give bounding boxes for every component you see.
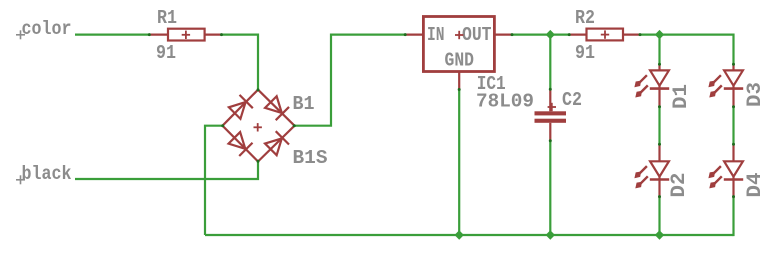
wire ground rail <box>205 234 734 236</box>
svg-text:GND: GND <box>445 50 475 72</box>
svg-text:D3: D3 <box>744 82 767 107</box>
wire R2 to D1/D3 node and top corner <box>640 35 734 65</box>
junction GND rail at IC1 <box>455 230 464 239</box>
pin dot R1 pin 2 <box>220 33 223 36</box>
pin dot IC1 IN <box>404 33 407 36</box>
svg-text:color: color <box>22 18 72 40</box>
pin dot D3 anode <box>732 63 735 66</box>
LED D4 top pin stub <box>732 144 734 161</box>
svg-text:B1: B1 <box>293 93 315 115</box>
wire IC1 OUT to R2 <box>512 33 569 35</box>
svg-text:91: 91 <box>156 42 176 64</box>
svg-text:R2: R2 <box>575 7 595 29</box>
bridge B1 diode top-right <box>264 95 289 120</box>
wire bridge left vertex down to ground rail <box>205 126 223 235</box>
pin dot bridge left vertex <box>221 124 224 127</box>
LED D2 top pin stub <box>658 144 660 161</box>
svg-text:D4: D4 <box>744 173 767 198</box>
wire C2 to ground rail <box>549 141 551 236</box>
LED D3 top pin stub <box>732 64 734 70</box>
pin dot C2 top <box>549 88 552 91</box>
LED D3 <box>708 70 743 107</box>
IC1 pin OUT <box>494 33 512 35</box>
pin dot C2 bottom <box>549 139 552 142</box>
pin dot IC1 OUT <box>511 33 514 36</box>
bridge B1 diode top-left <box>228 95 253 120</box>
wire IC1 GND to ground rail <box>458 90 460 236</box>
wire D1 to D2 <box>658 107 660 145</box>
bridge B1 diode bottom-right <box>264 131 289 156</box>
junction OUT node <box>546 30 555 39</box>
capacitor C2 plus mark <box>548 103 556 111</box>
capacitor C2 <box>535 89 567 141</box>
LED D4 <box>708 161 743 198</box>
LED D1 <box>634 70 669 107</box>
junction R2/D1 node <box>655 30 664 39</box>
pin dot D1 cathode <box>658 105 661 108</box>
pin dot D1 anode <box>658 63 661 66</box>
svg-text:C2: C2 <box>562 89 582 111</box>
pin dot D3 cathode <box>732 105 735 108</box>
pin dot bridge top vertex <box>257 88 260 91</box>
pin connection dots <box>148 33 735 198</box>
svg-text:B1S: B1S <box>293 147 328 169</box>
bridge rectifier B1 outline <box>223 90 295 162</box>
LED D2 <box>634 161 669 198</box>
junction GND rail at C2 <box>546 230 555 239</box>
wire black to bridge bottom vertex <box>75 162 258 180</box>
pin dot D4 anode <box>732 143 735 146</box>
IC1 pin IN <box>405 33 424 35</box>
pin dot IC1 GND <box>458 88 461 91</box>
pin dot R1 pin 1 <box>148 33 151 36</box>
svg-text:78L09: 78L09 <box>476 91 534 113</box>
svg-text:D2: D2 <box>668 173 691 198</box>
node COLOR origin cross <box>16 30 25 39</box>
svg-text:IN: IN <box>427 24 445 46</box>
resistor R1 <box>149 29 223 41</box>
svg-text:91: 91 <box>575 42 595 64</box>
pin dot bridge right vertex <box>293 124 296 127</box>
wire D4 to ground rail <box>732 197 734 237</box>
wire D3 to D4 <box>732 107 734 145</box>
node BLACK origin cross <box>16 175 25 184</box>
IC1 pin GND <box>458 72 460 91</box>
junction GND rail at D2 <box>655 230 664 239</box>
wire bridge right vertex to IC1 IN <box>295 35 406 126</box>
svg-text:D1: D1 <box>670 84 693 109</box>
bridge B1 diode bottom-left <box>228 131 253 156</box>
bridge B1 origin cross <box>254 123 262 131</box>
svg-text:R1: R1 <box>157 7 177 29</box>
svg-text:OUT: OUT <box>462 24 492 46</box>
LED D1 top pin stub <box>658 64 660 70</box>
voltage regulator IC1 box <box>423 17 494 72</box>
pin dot R2 pin 1 <box>568 33 571 36</box>
wire color to R1 <box>75 33 149 35</box>
wire node down to D1 <box>658 35 660 65</box>
svg-text:black: black <box>22 163 72 185</box>
wire D2 to ground rail <box>658 197 660 235</box>
pin dot D2 anode <box>658 143 661 146</box>
wire R1 to bridge top vertex <box>222 35 258 90</box>
resistor R2 <box>569 29 641 41</box>
IC1 origin cross <box>455 31 463 39</box>
pin dot bridge bottom vertex <box>257 160 260 163</box>
wire OUT node down to C2 <box>549 35 551 90</box>
pin dot D2 cathode <box>658 195 661 198</box>
pin dot R2 pin 2 <box>639 33 642 36</box>
pin dot D4 cathode <box>732 195 735 198</box>
